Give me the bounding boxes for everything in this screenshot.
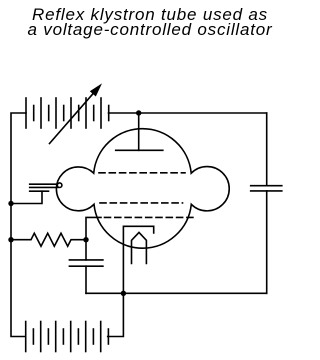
klystron tube envelope V1 <box>56 129 229 249</box>
junction dot cathode <box>121 291 126 296</box>
coax line middle <box>30 186 58 188</box>
wire top <box>109 112 267 114</box>
grid G3 (dashed) <box>105 216 195 218</box>
heater <box>132 232 147 263</box>
battery B2 (bottom) <box>26 322 109 352</box>
wire right rail upper <box>266 113 268 186</box>
wire right rail lower <box>266 191 268 293</box>
svg-text:a voltage-controlled oscillato: a voltage-controlled oscillator <box>28 20 274 39</box>
wire battery B2 to junction <box>108 293 124 336</box>
coax line bottom <box>30 190 49 192</box>
title <box>28 5 274 39</box>
arrow (variable adjustment) <box>50 83 103 143</box>
junction dot repeller <box>136 110 141 115</box>
wire bottom <box>86 292 267 294</box>
wire grid G3 lead <box>86 217 101 239</box>
grid G1 (dashed) <box>99 172 185 174</box>
junction dot resistor right <box>83 237 88 242</box>
battery B1 (variable, top) <box>26 98 109 128</box>
coax line top <box>30 183 58 185</box>
junction dot coax <box>8 201 13 206</box>
junction dot resistor left <box>8 237 13 242</box>
capacitor C2 <box>251 186 282 191</box>
resistor R1 <box>11 233 86 246</box>
wire coax to left rail <box>11 191 42 203</box>
capacitor C1 <box>69 240 103 294</box>
cathode <box>123 226 153 293</box>
grid G2 (dashed) <box>100 202 183 204</box>
repeller electrode <box>116 113 163 150</box>
wire left rail <box>11 113 26 337</box>
coupling loop <box>57 183 62 188</box>
